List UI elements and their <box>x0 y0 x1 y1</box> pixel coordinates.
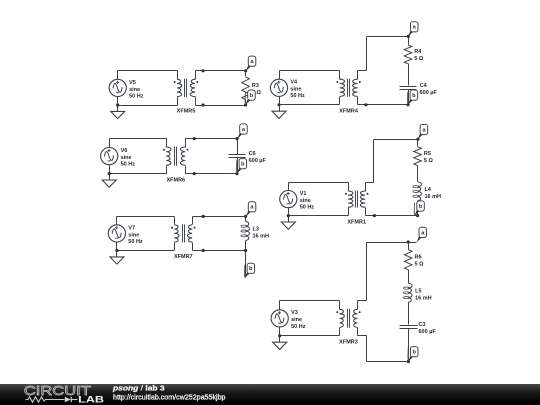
wire junction <box>278 334 281 337</box>
svg-text:50 Hz: 50 Hz <box>121 162 136 168</box>
wire <box>117 216 175 218</box>
wire junction <box>235 172 238 175</box>
wire junction <box>373 214 376 217</box>
node b (circuit 4) flag <box>414 201 424 216</box>
svg-text:b: b <box>249 266 253 272</box>
svg-text:V4: V4 <box>290 80 298 86</box>
wire <box>193 216 247 218</box>
wire junction <box>287 214 290 217</box>
svg-text:R3: R3 <box>252 83 259 89</box>
wire stub to node b <box>245 251 247 278</box>
label V5 value <box>129 80 144 100</box>
wire <box>366 336 368 362</box>
svg-text:50 Hz: 50 Hz <box>290 93 305 99</box>
transformer XFMR4 <box>336 71 360 105</box>
voltage source V1 (sine 50 Hz) <box>280 191 297 208</box>
wire <box>358 300 367 302</box>
wire junction <box>244 103 247 106</box>
wire junction <box>407 360 410 363</box>
svg-text:sine: sine <box>121 155 132 161</box>
wire <box>289 182 349 184</box>
label V7 value <box>128 225 143 245</box>
wire <box>237 139 239 155</box>
svg-text:600 µF: 600 µF <box>419 329 437 335</box>
wire junction <box>244 69 247 72</box>
svg-text:sine: sine <box>129 87 140 93</box>
svg-text:V3: V3 <box>291 310 298 316</box>
transformer XFMR6 <box>163 139 189 174</box>
wire <box>408 274 410 284</box>
svg-text:C3: C3 <box>419 322 426 328</box>
wire <box>408 90 410 105</box>
svg-text:http://circuitlab.com/cw252pa5: http://circuitlab.com/cw252pa55kjbp <box>113 393 226 402</box>
svg-text:L3: L3 <box>253 227 259 233</box>
node a (circuit 2) flag <box>408 22 418 37</box>
inductor L3 <box>241 222 250 241</box>
wire <box>117 97 119 106</box>
footer url <box>113 393 226 402</box>
svg-text:b: b <box>412 93 416 99</box>
wire <box>408 329 410 362</box>
label L3 value <box>253 227 270 240</box>
wire junction <box>244 215 247 218</box>
wire <box>237 158 239 174</box>
label V6 value <box>121 148 136 168</box>
label R3 value <box>252 83 262 96</box>
transformer XFMR3 <box>336 301 360 336</box>
svg-text:C4: C4 <box>420 83 428 89</box>
label R6 value <box>415 255 425 268</box>
footer bar background <box>0 384 540 405</box>
node b (circuit 1) flag <box>245 90 255 105</box>
wire <box>279 301 281 310</box>
svg-text:sine: sine <box>291 317 302 323</box>
svg-text:XFMR7: XFMR7 <box>174 254 193 260</box>
wire <box>118 70 178 72</box>
label C3 value <box>419 322 437 335</box>
wire <box>358 104 409 106</box>
node a (circuit 5) flag <box>246 202 256 217</box>
svg-text:600 µF: 600 µF <box>420 90 438 96</box>
node a (circuit 1) flag <box>246 56 256 71</box>
wire <box>196 105 246 107</box>
wire junction <box>201 103 204 106</box>
ground <box>273 336 287 350</box>
wire junction <box>201 69 204 72</box>
wire <box>109 165 111 174</box>
ground <box>102 174 116 188</box>
wire junction <box>235 137 238 140</box>
voltage source V7 (sine 50 Hz) <box>108 225 125 242</box>
svg-text:LAB: LAB <box>78 394 104 404</box>
wire <box>116 243 118 251</box>
svg-text:5 Ω: 5 Ω <box>414 56 424 62</box>
wire <box>116 217 118 225</box>
label C6 value <box>249 151 267 164</box>
svg-text:R4: R4 <box>414 49 422 55</box>
wire <box>288 183 290 191</box>
wire <box>280 300 340 302</box>
wire <box>288 208 290 216</box>
wire junction <box>193 137 196 140</box>
wire <box>366 215 418 217</box>
wire <box>279 71 281 80</box>
wire <box>374 139 419 141</box>
wire junction <box>202 215 205 218</box>
svg-text:sine: sine <box>128 232 139 238</box>
wire <box>366 243 368 301</box>
resistor R4 <box>404 37 412 64</box>
svg-text:C6: C6 <box>249 151 256 157</box>
CircuitLab logo: LAB text <box>78 394 104 404</box>
ground <box>281 216 295 230</box>
wire <box>408 64 410 86</box>
capacitor C4 <box>400 87 417 90</box>
svg-text:sine: sine <box>300 198 311 204</box>
ground <box>272 105 286 119</box>
wire <box>358 335 367 337</box>
wire junction <box>407 35 410 38</box>
svg-text:XFMR4: XFMR4 <box>339 109 359 115</box>
svg-text:50 Hz: 50 Hz <box>300 205 315 211</box>
svg-text:50 Hz: 50 Hz <box>291 324 306 330</box>
svg-text:b: b <box>250 93 254 99</box>
wire <box>367 36 409 38</box>
wire <box>417 166 419 182</box>
label R4 value <box>414 49 424 62</box>
svg-text:V7: V7 <box>128 225 135 231</box>
resistor R5 <box>414 140 422 166</box>
wire <box>366 182 374 184</box>
wire <box>280 104 340 106</box>
svg-text:V5: V5 <box>129 80 136 86</box>
svg-text:L5: L5 <box>415 289 421 295</box>
label L4 value <box>425 187 442 200</box>
svg-text:5 Ω: 5 Ω <box>415 262 425 268</box>
svg-text:V1: V1 <box>300 191 307 197</box>
transformer XFMR7 <box>171 217 195 251</box>
wire <box>280 335 340 337</box>
wire junction <box>116 103 119 106</box>
wire junction <box>407 240 410 243</box>
wire junction <box>406 103 409 106</box>
wire <box>186 173 238 175</box>
svg-text:sine: sine <box>290 87 301 93</box>
wire <box>117 71 119 80</box>
node b (circuit 5) flag <box>245 263 255 278</box>
label V3 value <box>291 310 306 330</box>
svg-text:16 mH: 16 mH <box>415 295 432 301</box>
voltage source V6 (sine 50 Hz) <box>101 148 118 165</box>
capacitor C6 <box>229 155 246 158</box>
svg-text:XFMR6: XFMR6 <box>166 177 185 183</box>
inductor L5 <box>404 283 413 302</box>
wire junction <box>115 249 118 252</box>
svg-text:5 Ω: 5 Ω <box>424 158 434 164</box>
wire junction <box>364 103 367 106</box>
svg-text:16 mH: 16 mH <box>425 194 442 200</box>
node b (circuit 6) flag <box>408 347 418 362</box>
capacitor C3 <box>400 326 418 329</box>
wire <box>245 241 247 251</box>
wire junction <box>416 214 419 217</box>
svg-text:psong / lab 3: psong / lab 3 <box>112 384 165 393</box>
ground <box>110 251 124 265</box>
wire <box>289 215 349 217</box>
svg-text:XFMR5: XFMR5 <box>177 109 196 115</box>
label R5 value <box>424 151 434 164</box>
resistor R3 <box>242 71 250 106</box>
wire junction <box>108 172 111 175</box>
ground <box>111 106 125 119</box>
wire <box>109 139 111 148</box>
wire <box>245 217 247 222</box>
wire <box>408 303 410 325</box>
wire <box>417 201 419 216</box>
svg-text:50 Hz: 50 Hz <box>128 239 143 245</box>
wire <box>110 173 167 175</box>
wire <box>279 327 281 336</box>
CircuitLab logo: CIRCUIT outlined text <box>24 383 91 398</box>
wire junction <box>193 172 196 175</box>
label V1 value <box>300 191 315 211</box>
svg-text:XFMR1: XFMR1 <box>347 219 366 225</box>
wire <box>367 361 409 363</box>
wire junction <box>416 138 419 141</box>
transformer XFMR5 <box>174 71 199 106</box>
wire <box>117 250 175 252</box>
CircuitLab logo: resistor zigzag and diode glyph <box>26 397 78 403</box>
svg-text:XFMR3: XFMR3 <box>339 340 358 346</box>
svg-text:16 mH: 16 mH <box>253 234 270 240</box>
voltage source V5 (sine 50 Hz) <box>109 79 126 96</box>
wire <box>110 138 167 140</box>
footer title: psong / lab 3 <box>112 384 165 393</box>
node a (circuit 3) flag <box>237 124 247 139</box>
wire <box>193 250 246 252</box>
wire <box>358 70 367 72</box>
wire <box>366 37 368 71</box>
wire <box>367 242 417 244</box>
svg-text:L4: L4 <box>425 187 432 193</box>
node b (circuit 3) flag <box>237 159 247 174</box>
wire <box>186 138 238 140</box>
voltage source V4 (sine 50 Hz) <box>270 79 287 96</box>
wire <box>280 70 340 72</box>
node a (circuit 6) flag <box>417 227 427 242</box>
wire <box>373 140 375 183</box>
transformer XFMR1 <box>345 183 369 216</box>
wire junction <box>202 249 205 252</box>
node a (circuit 4) flag <box>418 124 428 139</box>
wire junction <box>244 249 247 252</box>
svg-text:R6: R6 <box>415 255 422 261</box>
svg-text:b: b <box>241 162 245 168</box>
svg-text:R5: R5 <box>424 151 431 157</box>
resistor R6 <box>404 243 412 274</box>
svg-text:V6: V6 <box>121 148 128 154</box>
svg-text:b: b <box>412 350 416 356</box>
wire <box>196 70 247 72</box>
wire <box>279 97 281 105</box>
voltage source V3 (sine 50 Hz) <box>271 310 288 327</box>
svg-text:50 Hz: 50 Hz <box>129 93 144 99</box>
wire <box>118 105 178 107</box>
label C4 value <box>420 83 438 96</box>
wire junction <box>277 103 280 106</box>
inductor L4 <box>413 182 422 201</box>
label V4 value <box>290 80 305 100</box>
label L5 value <box>415 289 432 302</box>
node b (circuit 2) flag <box>408 90 418 105</box>
svg-text:b: b <box>419 204 423 210</box>
svg-text:600 µF: 600 µF <box>249 158 267 164</box>
